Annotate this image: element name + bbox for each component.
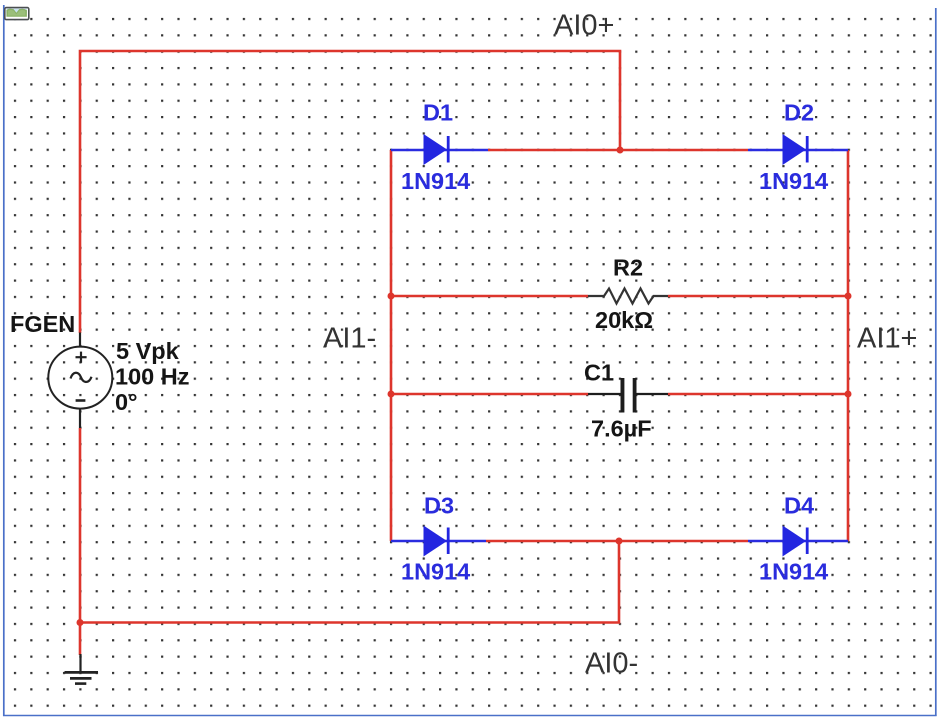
svg-text:D1: D1 (423, 100, 453, 126)
svg-text:R2: R2 (613, 255, 643, 281)
svg-text:D3: D3 (424, 493, 454, 519)
svg-text:20kΩ: 20kΩ (595, 307, 653, 333)
svg-text:FGEN: FGEN (10, 311, 75, 337)
svg-text:5 Vpk: 5 Vpk (116, 338, 180, 364)
svg-text:C1: C1 (584, 360, 614, 386)
svg-text:1N914: 1N914 (401, 559, 470, 585)
svg-text:D4: D4 (784, 493, 814, 519)
svg-text:AI0+: AI0+ (554, 10, 614, 42)
svg-text:7.6µF: 7.6µF (591, 416, 652, 442)
svg-text:100 Hz: 100 Hz (115, 364, 189, 390)
svg-text:D2: D2 (784, 100, 814, 126)
svg-text:0°: 0° (115, 389, 137, 415)
svg-text:AI1-: AI1- (323, 323, 376, 355)
svg-text:AI1+: AI1+ (857, 323, 917, 355)
svg-text:AI0-: AI0- (585, 648, 638, 680)
svg-text:1N914: 1N914 (401, 168, 470, 194)
svg-text:1N914: 1N914 (759, 168, 828, 194)
svg-text:1N914: 1N914 (759, 559, 828, 585)
